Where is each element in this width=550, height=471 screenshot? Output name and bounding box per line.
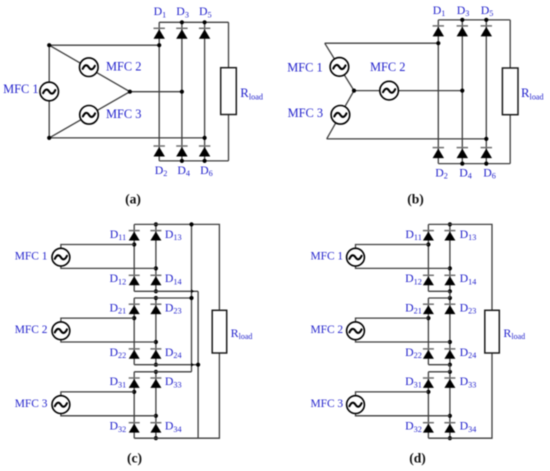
wire bridge leg 1 (fig b)	[437, 20, 439, 164]
diode D24 (fig d)	[444, 349, 455, 359]
svg-text:D5: D5	[199, 4, 212, 19]
diode D5 (fig a)	[199, 28, 210, 39]
wire delta left side (fig a)	[48, 45, 50, 138]
wire phase B to bridge (fig a)	[130, 91, 182, 93]
wire bridge1 left leg (fig d)	[427, 224, 429, 291]
wire bridge leg 2 (fig a)	[181, 22, 183, 161]
wire phase A to bridge (fig a)	[49, 44, 159, 46]
diode D23 (fig c)	[150, 304, 161, 314]
source MFC 3 (fig b)	[331, 106, 350, 125]
diode D24 (fig c)	[150, 349, 161, 359]
resistor Rload (fig b)	[502, 68, 518, 115]
source MFC 2 (fig b)	[380, 81, 399, 100]
wire phase C diagonal (fig b)	[327, 91, 354, 139]
diode D22 (fig c)	[129, 349, 140, 359]
junction phase B (fig b)	[460, 89, 464, 93]
wire bridge2 top rail (fig c)	[134, 297, 191, 299]
svg-text:D3: D3	[176, 4, 189, 19]
source MFC 1 (fig a)	[40, 82, 59, 101]
svg-text:D34: D34	[165, 419, 182, 434]
junction positive bus top rail 1 (fig c)	[189, 222, 193, 226]
diode D31 (fig c)	[129, 378, 140, 388]
svg-text:D24: D24	[165, 345, 182, 360]
svg-text:(d): (d)	[409, 450, 426, 466]
svg-text:D1: D1	[154, 4, 167, 19]
wire bridge3 top rail (fig d)	[428, 371, 450, 373]
diode D11 (fig d)	[423, 231, 434, 241]
svg-text:MFC 2: MFC 2	[370, 60, 405, 74]
junction top rail right leg bridge1 (fig c)	[154, 222, 158, 226]
svg-text:D11: D11	[405, 227, 421, 242]
diode D12 (fig d)	[423, 275, 434, 285]
svg-text:MFC 2: MFC 2	[106, 59, 141, 73]
wire bridge2 left leg (fig d)	[427, 298, 429, 365]
junction top rail leg3 (fig b)	[484, 18, 488, 22]
resistor Rload (fig c)	[212, 310, 227, 353]
svg-text:D34: D34	[460, 419, 477, 434]
svg-text:MFC 2: MFC 2	[15, 324, 48, 336]
wire bridge2 bottom rail (fig c)	[134, 364, 198, 366]
junction phase top bridge1 (fig c)	[132, 242, 136, 246]
diode D5 (fig b)	[481, 26, 492, 37]
svg-text:D22: D22	[405, 345, 422, 360]
wire series link bridge1-bridge2 (fig d)	[449, 291, 451, 298]
junction phase A (fig a)	[157, 43, 161, 47]
wire bridge1 bottom rail (fig c)	[134, 290, 198, 292]
svg-text:D14: D14	[460, 271, 477, 286]
svg-text:Rload: Rload	[231, 326, 253, 341]
wire bridge2 right leg (fig c)	[155, 298, 157, 365]
diode D13 (fig d)	[444, 231, 455, 241]
diode D32 (fig d)	[423, 423, 434, 433]
svg-text:D6: D6	[483, 165, 496, 180]
source MFC 2 (fig d)	[347, 322, 365, 340]
wire bridge leg 3 (fig a)	[204, 22, 206, 161]
source MFC 3 (fig c)	[52, 396, 70, 414]
junction positive bus top rail 2 (fig c)	[189, 296, 193, 300]
svg-text:D13: D13	[460, 227, 477, 242]
wire MFC 2 bottom terminal (fig d)	[356, 340, 450, 342]
junction phase bottom bridge2 (fig d)	[448, 340, 452, 344]
wire phase A to bridge (fig b)	[325, 42, 439, 44]
svg-text:D4: D4	[177, 163, 190, 178]
source MFC 3 (fig a)	[80, 106, 99, 125]
diode D34 (fig c)	[150, 423, 161, 433]
svg-text:MFC 3: MFC 3	[311, 398, 344, 410]
resistor Rload (fig a)	[221, 68, 237, 115]
wire bridge1 top rail to load (fig d)	[428, 224, 492, 310]
junction top rail leg2 (fig b)	[460, 18, 464, 22]
wire MFC 3 top terminal (fig c)	[61, 392, 134, 396]
svg-text:D23: D23	[165, 300, 182, 315]
wire load branch (fig a)	[228, 22, 230, 161]
diode D21 (fig c)	[129, 304, 140, 314]
node star center (fig b)	[352, 89, 356, 93]
svg-text:D3: D3	[457, 3, 470, 18]
junction top rail right leg bridge3 (fig d)	[448, 370, 452, 374]
svg-text:D6: D6	[200, 163, 213, 178]
source MFC 1 (fig d)	[347, 248, 365, 266]
resistor Rload (fig d)	[485, 310, 500, 353]
junction phase top bridge2 (fig d)	[426, 316, 430, 320]
wire negative bus (fig c)	[197, 291, 199, 438]
svg-text:D33: D33	[165, 374, 182, 389]
junction bottom rail right leg bridge3 (fig c)	[154, 436, 158, 440]
wire MFC 2 top terminal (fig d)	[356, 318, 429, 322]
svg-text:D31: D31	[109, 374, 126, 389]
junction top rail right leg bridge2 (fig c)	[154, 296, 158, 300]
svg-text:D32: D32	[109, 419, 126, 434]
svg-text:Rload: Rload	[503, 326, 525, 341]
junction phase top bridge2 (fig c)	[132, 316, 136, 320]
wire bridge3 bottom rail to load (fig d)	[428, 353, 492, 438]
svg-text:MFC 1: MFC 1	[287, 60, 322, 74]
junction phase bottom bridge2 (fig c)	[154, 340, 158, 344]
svg-text:MFC 3: MFC 3	[15, 398, 48, 410]
crossover positive bus over bottom rail 1 (fig c)	[191, 289, 194, 293]
junction phase C (fig a)	[203, 136, 207, 140]
junction bottom rail right leg bridge1 (fig c)	[154, 289, 158, 293]
diode D2 (fig b)	[433, 148, 444, 159]
wire bridge2 bottom rail (fig d)	[428, 364, 450, 366]
svg-text:D21: D21	[109, 300, 126, 315]
svg-text:MFC 1: MFC 1	[3, 82, 38, 96]
source MFC 1 (fig c)	[52, 248, 70, 266]
junction top rail leg2 (fig a)	[180, 20, 184, 24]
source MFC 3 (fig d)	[347, 396, 365, 414]
diode D34 (fig d)	[444, 423, 455, 433]
diode D3 (fig b)	[457, 26, 468, 37]
diode D13 (fig c)	[150, 231, 161, 241]
wire bridge3 top rail (fig c)	[134, 371, 191, 373]
junction phase bottom bridge1 (fig c)	[154, 266, 158, 270]
wire bottom rail (fig b)	[438, 163, 510, 165]
diode D22 (fig d)	[423, 349, 434, 359]
wire bridge1 right leg (fig c)	[155, 224, 157, 291]
svg-text:D14: D14	[165, 271, 182, 286]
junction bottom rail right leg bridge3 (fig d)	[448, 436, 452, 440]
svg-text:D5: D5	[481, 3, 494, 18]
wire MFC 3 top terminal (fig d)	[356, 392, 429, 396]
svg-text:D12: D12	[109, 271, 126, 286]
diode D6 (fig b)	[481, 148, 492, 159]
junction top rail right leg bridge3 (fig c)	[154, 370, 158, 374]
wire bridge1 left leg (fig c)	[133, 224, 135, 291]
svg-text:D24: D24	[460, 345, 477, 360]
wire phase B to bridge (fig b)	[354, 90, 462, 92]
junction phase top bridge3 (fig d)	[426, 390, 430, 394]
svg-text:(b): (b)	[407, 191, 424, 207]
wire bridge3 left leg (fig c)	[133, 372, 135, 438]
wire top rail (fig a)	[159, 21, 228, 23]
node delta right (fig a)	[128, 90, 132, 94]
diode D32 (fig c)	[129, 423, 140, 433]
svg-text:MFC 1: MFC 1	[311, 251, 344, 263]
wire bridge3 right leg (fig c)	[155, 372, 157, 438]
wire bridge2 right leg (fig d)	[449, 298, 451, 365]
svg-text:MFC 2: MFC 2	[311, 324, 344, 336]
diode D4 (fig a)	[176, 146, 187, 157]
wire bridge3 bottom rail to load (fig c)	[134, 353, 219, 438]
svg-text:(a): (a)	[125, 191, 141, 207]
junction bottom rail leg2 (fig a)	[180, 159, 184, 163]
wire MFC 1 bottom terminal (fig c)	[61, 266, 156, 268]
svg-text:MFC 1: MFC 1	[15, 251, 48, 263]
svg-text:D1: D1	[433, 3, 446, 18]
diode D33 (fig d)	[444, 378, 455, 388]
junction bottom rail right leg bridge2 (fig d)	[448, 363, 452, 367]
svg-text:D4: D4	[459, 165, 472, 180]
svg-text:D31: D31	[405, 374, 422, 389]
junction bottom rail right leg bridge2 (fig c)	[154, 363, 158, 367]
diode D14 (fig d)	[444, 275, 455, 285]
diode D14 (fig c)	[150, 275, 161, 285]
junction top rail leg3 (fig a)	[203, 20, 207, 24]
svg-text:Rload: Rload	[240, 86, 263, 102]
wire MFC 1 bottom terminal (fig d)	[356, 266, 450, 268]
source MFC 1 (fig b)	[330, 58, 349, 77]
junction bottom rail leg2 (fig b)	[460, 162, 464, 166]
svg-text:D2: D2	[435, 165, 448, 180]
junction phase A (fig b)	[436, 41, 440, 45]
junction negative bus bottom rail 2 (fig c)	[196, 363, 200, 367]
svg-text:D13: D13	[165, 227, 182, 242]
wire bridge3 right leg (fig d)	[449, 372, 451, 438]
junction bottom rail leg3 (fig a)	[203, 159, 207, 163]
wire bottom rail (fig a)	[159, 160, 228, 162]
junction phase C (fig b)	[484, 137, 488, 141]
svg-text:(c): (c)	[127, 450, 142, 466]
junction phase top bridge1 (fig d)	[426, 242, 430, 246]
wire bridge leg 3 (fig b)	[485, 20, 487, 164]
svg-text:D33: D33	[460, 374, 477, 389]
wire MFC 3 bottom terminal (fig c)	[61, 414, 156, 416]
svg-text:MFC 3: MFC 3	[106, 107, 141, 121]
wire bridge leg 2 (fig b)	[461, 20, 463, 164]
diode D21 (fig d)	[423, 304, 434, 314]
node delta bottom-left (fig a)	[47, 136, 51, 140]
diode D3 (fig a)	[176, 28, 187, 39]
wire phase C to bridge (fig a)	[49, 137, 204, 139]
diode D2 (fig a)	[154, 146, 165, 157]
diode D31 (fig d)	[423, 378, 434, 388]
svg-text:D21: D21	[405, 300, 422, 315]
diode D1 (fig a)	[154, 28, 165, 39]
wire MFC 2 top terminal (fig c)	[61, 318, 134, 322]
svg-text:D23: D23	[460, 300, 477, 315]
wire MFC 3 bottom terminal (fig d)	[356, 414, 450, 416]
wire bridge1 right leg (fig d)	[449, 224, 451, 291]
wire positive bus (fig c)	[191, 224, 193, 371]
svg-text:D32: D32	[405, 419, 422, 434]
wire bridge3 left leg (fig d)	[427, 372, 429, 438]
wire bridge1 bottom rail (fig d)	[428, 290, 450, 292]
diode D6 (fig a)	[199, 146, 210, 157]
wire MFC 1 top terminal (fig c)	[61, 245, 134, 249]
wire delta bottom diagonal (fig a)	[49, 92, 130, 138]
junction bottom rail leg3 (fig b)	[484, 162, 488, 166]
junction phase bottom bridge3 (fig c)	[154, 414, 158, 418]
diode D12 (fig c)	[129, 275, 140, 285]
wire bridge2 left leg (fig c)	[133, 298, 135, 365]
svg-text:D2: D2	[155, 163, 168, 178]
junction phase bottom bridge3 (fig d)	[448, 414, 452, 418]
junction phase top bridge3 (fig c)	[132, 390, 136, 394]
diode D33 (fig c)	[150, 378, 161, 388]
wire MFC 1 top terminal (fig d)	[356, 245, 429, 249]
junction top rail right leg bridge1 (fig d)	[448, 222, 452, 226]
wire top rail (fig b)	[438, 19, 510, 21]
svg-text:Rload: Rload	[521, 86, 544, 102]
junction bottom rail right leg bridge1 (fig d)	[448, 289, 452, 293]
wire bridge leg 1 (fig a)	[158, 22, 160, 161]
junction phase bottom bridge1 (fig d)	[448, 266, 452, 270]
svg-text:D12: D12	[405, 271, 422, 286]
svg-text:MFC 3: MFC 3	[288, 106, 323, 120]
wire load branch (fig b)	[509, 20, 511, 164]
junction phase B (fig a)	[180, 90, 184, 94]
diode D1 (fig b)	[433, 26, 444, 37]
wire delta top diagonal (fig a)	[49, 45, 130, 91]
diode D11 (fig c)	[129, 231, 140, 241]
wire phase A diagonal (fig b)	[325, 43, 354, 90]
source MFC 2 (fig a)	[80, 58, 99, 77]
wire bridge1 top rail to load (fig c)	[134, 224, 219, 310]
wire phase C to bridge (fig b)	[327, 138, 487, 140]
junction top rail right leg bridge2 (fig d)	[448, 296, 452, 300]
diode D4 (fig b)	[457, 148, 468, 159]
crossover positive bus over bottom rail 2 (fig c)	[191, 363, 194, 367]
svg-text:D11: D11	[110, 227, 126, 242]
svg-text:D22: D22	[109, 345, 126, 360]
wire MFC 2 bottom terminal (fig c)	[61, 340, 156, 342]
node delta top-left (fig a)	[47, 43, 51, 47]
diode D23 (fig d)	[444, 304, 455, 314]
wire bridge2 top rail (fig d)	[428, 297, 450, 299]
wire series link bridge2-bridge3 (fig d)	[449, 365, 451, 372]
source MFC 2 (fig c)	[52, 322, 70, 340]
